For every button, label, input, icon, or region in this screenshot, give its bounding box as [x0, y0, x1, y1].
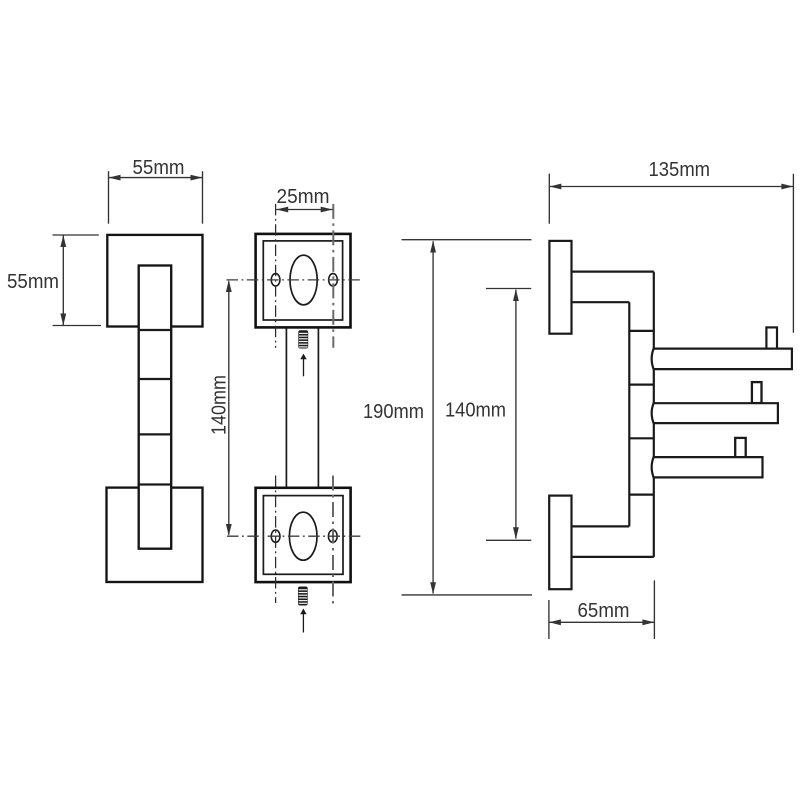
hook 2 pin tab — [752, 382, 762, 403]
hook 1 pin tab — [766, 327, 777, 348]
hook 1 body — [652, 349, 792, 370]
centerline horizontal, bottom plate — [227, 535, 361, 537]
dimension 65mm: dimension line with arrows — [549, 621, 655, 623]
top arm, side view — [572, 271, 654, 273]
dimension 65mm: extension lines — [548, 600, 550, 639]
dimension 190mm: dimension line with arrows — [432, 241, 434, 593]
centerline vertical left, bottom plate — [275, 476, 277, 604]
bar segment line 1 — [139, 329, 172, 331]
svg-text:65mm: 65mm — [578, 600, 630, 622]
centerline horizontal, top plate — [227, 279, 364, 281]
bottom plate right screw hole — [328, 530, 337, 542]
bottom plate outer square — [256, 488, 351, 582]
dimension 140mm middle: dimension line with arrows — [228, 281, 230, 535]
bar segment line 1, side view — [629, 330, 654, 332]
svg-text:140mm: 140mm — [445, 400, 506, 422]
vertical bar, front view — [139, 266, 172, 549]
bar segment line 4 — [139, 483, 172, 485]
dimension 140mm right: dimension line with arrows — [515, 290, 517, 539]
centerline vertical right, bottom plate — [332, 476, 334, 607]
middle vertical bar, front view — [285, 327, 287, 487]
top screw insertion arrow — [303, 359, 305, 377]
hook 2 body — [652, 403, 778, 423]
bottom square plate, front view — [107, 488, 203, 582]
dimension 55mm top: dimension line with arrows — [109, 177, 203, 179]
dimension 190mm: extension lines — [402, 239, 532, 241]
hook 3 body — [652, 457, 763, 477]
top plate right screw hole — [329, 274, 338, 286]
dimension 55mm left: dimension line with arrows — [62, 235, 64, 326]
svg-text:55mm: 55mm — [133, 157, 185, 179]
top square plate, front view — [107, 235, 202, 327]
bar segment line 4, side view — [629, 494, 654, 496]
svg-text:140mm: 140mm — [209, 375, 231, 435]
top wall plate, side view — [549, 241, 571, 334]
bar segment line 3 — [139, 433, 172, 435]
svg-text:190mm: 190mm — [363, 401, 424, 423]
dimension 140mm right: extension lines — [486, 288, 531, 290]
svg-text:55mm: 55mm — [7, 271, 59, 293]
dimension 55mm top: extension lines — [108, 171, 110, 224]
bottom grub screw (threaded stud) — [298, 587, 308, 606]
bar segment line 2, side view — [629, 384, 654, 386]
centerline vertical left, top plate — [275, 204, 277, 348]
dimension 135mm: extension lines — [548, 174, 550, 224]
bottom arm, side view — [572, 525, 630, 527]
top plate center ellipse — [290, 255, 317, 305]
bottom plate left screw hole — [271, 530, 280, 542]
bottom wall plate, side view — [549, 496, 571, 590]
top plate outer square — [256, 234, 351, 328]
centerline vertical right, top plate — [332, 204, 334, 348]
svg-text:135mm: 135mm — [649, 159, 711, 181]
bottom plate inner square — [263, 496, 343, 575]
vertical bar, side view — [628, 302, 630, 526]
top grub screw (threaded stud) — [298, 330, 308, 348]
top plate left screw hole — [271, 274, 280, 286]
bar segment line 3, side view — [629, 437, 654, 439]
svg-text:25mm: 25mm — [277, 186, 330, 208]
bar segment line 2 — [139, 378, 172, 380]
bottom screw insertion arrow — [302, 614, 304, 633]
top plate inner square — [263, 241, 342, 320]
dimension 135mm: dimension line with arrows — [549, 186, 793, 188]
dimension 55mm left: extension lines — [53, 234, 99, 236]
hook 3 pin tab — [735, 438, 746, 458]
bottom plate center ellipse — [289, 512, 317, 560]
dimension 25mm: dimension line with arrows — [276, 209, 333, 211]
